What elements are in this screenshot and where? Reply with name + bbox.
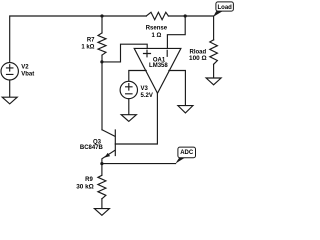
wire node A to op-amp plus input — [102, 44, 147, 62]
wire op-amp output to Q3 base — [115, 93, 157, 144]
wire R9 bottom to ground — [101, 199, 103, 209]
ground below Rload — [206, 78, 221, 85]
svg-text:V2: V2 — [21, 65, 29, 71]
voltage source V3 — [120, 81, 137, 98]
node dot R7 top — [100, 14, 103, 17]
svg-text:1 Ω: 1 Ω — [151, 33, 161, 39]
wire Rload bottom to ground — [213, 64, 215, 78]
wire V3 to op-amp V+ pin — [129, 71, 146, 81]
svg-text:ADC: ADC — [180, 150, 194, 156]
resistor R9 — [98, 175, 106, 199]
node dot emitter — [100, 162, 103, 165]
ground below V3 — [121, 115, 136, 122]
resistor R7 — [101, 16, 103, 33]
svg-text:Rsense: Rsense — [146, 25, 168, 31]
flag ADC tail — [176, 158, 185, 164]
op-amp plus mark — [144, 50, 151, 57]
resistor Rload — [210, 40, 218, 65]
svg-text:100 Ω: 100 Ω — [189, 55, 207, 62]
voltage source V2 — [1, 63, 18, 80]
svg-text:Vbat: Vbat — [21, 72, 34, 78]
wire node A down to Q3 collector — [101, 62, 103, 130]
resistor Rsense — [146, 12, 168, 19]
wire V2 bottom to ground — [9, 80, 11, 97]
transistor Q3 — [102, 130, 115, 164]
node dot rail Load — [184, 14, 187, 17]
wire V3 bottom to ground — [128, 99, 130, 115]
flag Load tail — [213, 11, 222, 17]
op-amp OA1 triangle — [134, 48, 181, 93]
svg-text:V3: V3 — [141, 86, 149, 92]
ground below op-amp V- — [178, 106, 193, 113]
node dot node A — [100, 60, 103, 63]
wire top rail left segment — [10, 16, 147, 63]
svg-text:5.2V: 5.2V — [141, 93, 153, 99]
wire op-amp V- pin to ground — [169, 71, 186, 106]
ground below R9 — [94, 209, 109, 216]
svg-text:BC847B: BC847B — [80, 145, 104, 151]
wire rail right of Rsense to Load tail — [168, 15, 213, 17]
flag Load box — [216, 2, 234, 11]
wire emitter node to ADC tail — [102, 163, 176, 165]
svg-text:R9: R9 — [85, 177, 93, 183]
wire emitter node down to R9 — [101, 164, 103, 175]
svg-text:1 kΩ: 1 kΩ — [81, 45, 94, 51]
flag ADC box — [178, 147, 196, 158]
wire minus input from rail node — [167, 16, 185, 48]
ground below V2 — [2, 97, 17, 104]
svg-text:30 kΩ: 30 kΩ — [76, 183, 94, 190]
svg-text:R7: R7 — [87, 38, 95, 44]
op-amp minus mark — [166, 50, 168, 56]
svg-text:Load: Load — [218, 5, 233, 11]
wire Load node down to Rload — [213, 16, 215, 40]
svg-text:LM358: LM358 — [149, 63, 168, 69]
